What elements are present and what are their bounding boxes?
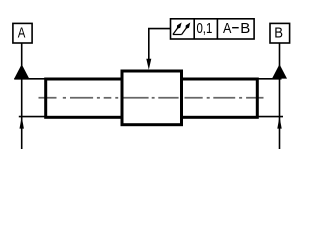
svg-text:B: B <box>240 21 250 37</box>
svg-text:0,1: 0,1 <box>196 20 212 37</box>
svg-text:A: A <box>18 24 26 41</box>
svg-text:B: B <box>274 25 283 41</box>
svg-text:A: A <box>223 20 231 36</box>
